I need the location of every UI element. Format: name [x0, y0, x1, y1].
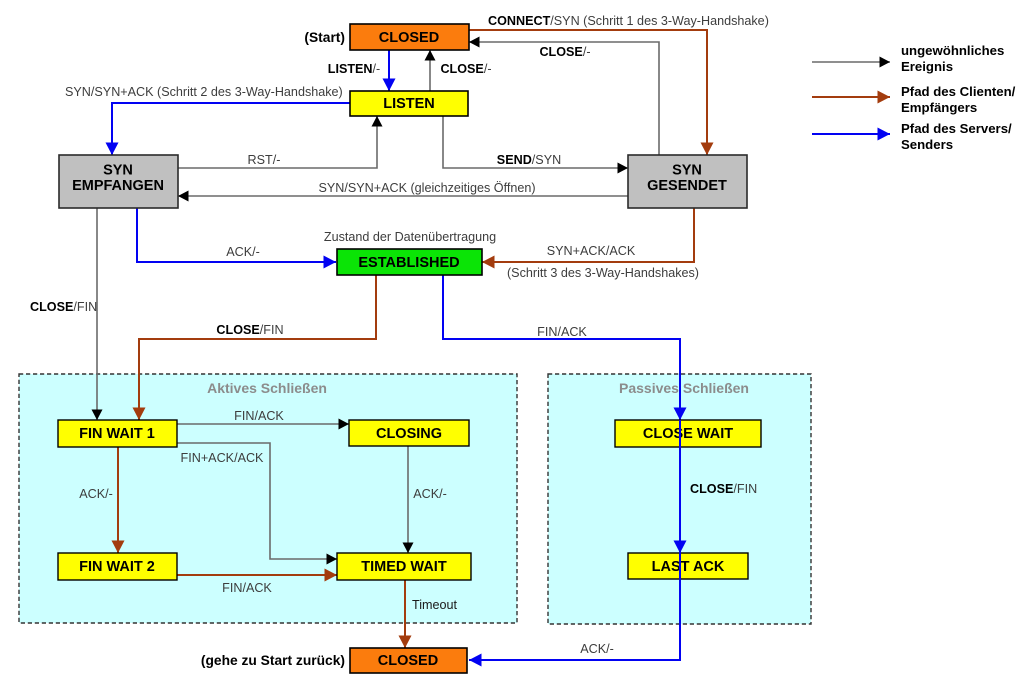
svg-text:TIMED WAIT: TIMED WAIT	[361, 559, 447, 575]
wire FIN/ACK : FIN WAIT 2 to TIMED WAIT (brown)	[177, 575, 337, 595]
wire RST/- : SYN EMPFANGEN to LISTEN (gray)	[178, 116, 377, 168]
wire SYN/SYN+ACK gleichzeitiges Oeffnen : SYN GESENDET to SYN EMPFANGEN (gray)	[178, 181, 628, 196]
svg-text:CLOSING: CLOSING	[376, 426, 442, 442]
svg-text:SEND/SYN: SEND/SYN	[497, 153, 561, 167]
wire FIN/ACK : FIN WAIT 1 to CLOSING (gray)	[177, 409, 349, 424]
wire SYN/SYN+ACK Schritt 2 : LISTEN to SYN EMPFANGEN (blue)	[65, 85, 350, 155]
svg-text:CLOSE/FIN: CLOSE/FIN	[690, 482, 757, 496]
panel Aktives Schliessen	[19, 374, 517, 623]
wire CLOSE/FIN : SYN EMPFANGEN to FIN WAIT 1 (gray)	[30, 208, 97, 420]
svg-text:CLOSED: CLOSED	[378, 653, 438, 669]
legend arrow: Pfad des Servers/Senders (blue)	[812, 121, 1012, 152]
svg-text:Passives Schließen: Passives Schließen	[619, 380, 749, 396]
state TIMED WAIT	[337, 553, 471, 580]
state SYN GESENDET	[628, 155, 747, 208]
svg-text:ESTABLISHED: ESTABLISHED	[358, 255, 459, 271]
svg-text:SYN+ACK/ACK: SYN+ACK/ACK	[547, 244, 636, 258]
wire CLOSE/FIN : CLOSE WAIT to LAST ACK (blue, over boxes)	[680, 420, 757, 553]
svg-text:FIN/ACK: FIN/ACK	[537, 325, 587, 339]
wire ACK/- : CLOSING to TIMED WAIT (gray)	[408, 446, 447, 553]
label (Start)	[304, 30, 345, 45]
svg-text:FIN/ACK: FIN/ACK	[234, 409, 284, 423]
legend arrow: ungewoehnliches Ereignis (gray)	[812, 43, 1004, 74]
svg-text:FIN/ACK: FIN/ACK	[222, 581, 272, 595]
svg-text:ACK/-: ACK/-	[79, 487, 113, 501]
svg-text:RST/-: RST/-	[248, 153, 281, 167]
svg-text:(gehe zu Start zurück): (gehe zu Start zurück)	[201, 653, 345, 668]
state FIN WAIT 1	[58, 420, 177, 447]
svg-text:CLOSE/FIN: CLOSE/FIN	[216, 323, 283, 337]
state ESTABLISHED	[337, 249, 482, 275]
svg-text:(Start): (Start)	[304, 30, 345, 45]
state CLOSING	[349, 420, 469, 446]
wire CLOSE/- : SYN GESENDET to CLOSED (gray)	[469, 42, 659, 155]
svg-text:CLOSE WAIT: CLOSE WAIT	[643, 426, 733, 442]
svg-text:Aktives Schließen: Aktives Schließen	[207, 380, 327, 396]
svg-text:SYN/SYN+ACK (gleichzeitiges Öf: SYN/SYN+ACK (gleichzeitiges Öffnen)	[318, 181, 535, 195]
svg-text:LISTEN: LISTEN	[383, 96, 435, 112]
panel Passives Schliessen	[548, 374, 811, 624]
svg-text:CONNECT/SYN (Schritt 1 des 3-W: CONNECT/SYN (Schritt 1 des 3-Way-Handsha…	[488, 14, 769, 28]
svg-text:SYN: SYN	[103, 163, 133, 179]
svg-text:GESENDET: GESENDET	[647, 178, 727, 194]
svg-text:FIN WAIT 1: FIN WAIT 1	[79, 426, 155, 442]
svg-text:EMPFANGEN: EMPFANGEN	[72, 178, 164, 194]
svg-text:ACK/-: ACK/-	[226, 245, 260, 259]
state LISTEN	[350, 91, 468, 116]
wire SYN+ACK/ACK Schritt 3 : SYN GESENDET to ESTABLISHED (brown)	[482, 208, 699, 280]
state FIN WAIT 2	[58, 553, 177, 580]
state CLOSED (bottom)	[350, 648, 467, 673]
state CLOSE WAIT	[615, 420, 761, 447]
label Zustand der Datenuebertragung	[324, 230, 496, 244]
svg-text:CLOSE/FIN: CLOSE/FIN	[30, 300, 97, 314]
svg-text:CLOSE/-: CLOSE/-	[440, 62, 491, 76]
wire Timeout : TIMED WAIT to CLOSED (brown)	[405, 580, 458, 648]
wire FIN/ACK : ESTABLISHED to CLOSE WAIT (blue)	[443, 275, 680, 420]
svg-text:Senders: Senders	[901, 137, 953, 152]
wire segment : LAST ACK down (blue, over box)	[679, 553, 681, 600]
wire ACK/- : LAST ACK to CLOSED (blue, bottom)	[469, 579, 680, 660]
wire FIN+ACK/ACK : FIN WAIT 1 to TIMED WAIT (gray)	[177, 443, 337, 559]
svg-text:Zustand der Datenübertragung: Zustand der Datenübertragung	[324, 230, 496, 244]
svg-text:Ereignis: Ereignis	[901, 59, 953, 74]
svg-text:LISTEN/-: LISTEN/-	[328, 62, 380, 76]
svg-text:Pfad des Servers/: Pfad des Servers/	[901, 121, 1012, 136]
wire ACK/- : SYN EMPFANGEN to ESTABLISHED (blue)	[137, 208, 336, 262]
svg-text:SYN/SYN+ACK (Schritt 2 des 3-W: SYN/SYN+ACK (Schritt 2 des 3-Way-Handsha…	[65, 85, 343, 99]
svg-text:Empfängers: Empfängers	[901, 100, 977, 115]
svg-text:LAST ACK: LAST ACK	[652, 559, 725, 575]
wire CONNECT/SYN : CLOSED to SYN GESENDET (brown)	[469, 14, 769, 155]
svg-text:Pfad des Clienten/: Pfad des Clienten/	[901, 84, 1016, 99]
svg-text:CLOSE/-: CLOSE/-	[539, 45, 590, 59]
wire CLOSE/FIN : ESTABLISHED to FIN WAIT 1 (brown)	[139, 275, 376, 420]
wire SEND/SYN : LISTEN to SYN GESENDET (gray)	[443, 116, 628, 168]
label (gehe zu Start zurueck)	[201, 653, 345, 668]
wire LISTEN/- : CLOSED to LISTEN (blue)	[328, 50, 389, 91]
svg-text:ungewöhnliches: ungewöhnliches	[901, 43, 1004, 58]
wire CLOSE/- : LISTEN to CLOSED (gray up)	[430, 50, 492, 91]
svg-text:ACK/-: ACK/-	[413, 487, 447, 501]
svg-text:ACK/-: ACK/-	[580, 642, 614, 656]
wire ACK/- : FIN WAIT 1 to FIN WAIT 2 (brown)	[79, 447, 118, 553]
svg-text:(Schritt 3 des 3-Way-Handshake: (Schritt 3 des 3-Way-Handshakes)	[507, 266, 699, 280]
svg-text:CLOSED: CLOSED	[379, 30, 439, 46]
svg-text:Timeout: Timeout	[412, 598, 458, 612]
legend arrow: Pfad des Clienten/Empfaengers (brown)	[812, 84, 1016, 115]
state SYN EMPFANGEN	[59, 155, 178, 208]
state CLOSED (top)	[350, 24, 469, 50]
svg-text:FIN WAIT 2: FIN WAIT 2	[79, 559, 155, 575]
svg-text:FIN+ACK/ACK: FIN+ACK/ACK	[181, 451, 265, 465]
state LAST ACK	[628, 553, 748, 579]
svg-text:SYN: SYN	[672, 163, 702, 179]
